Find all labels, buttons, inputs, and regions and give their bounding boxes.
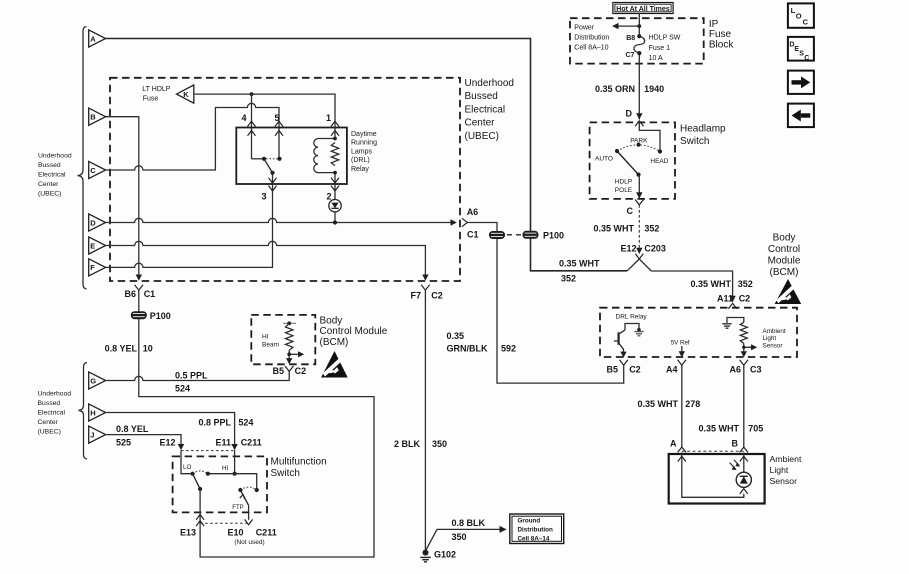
svg-text:352: 352 [738, 279, 753, 289]
relay lever pivot dot [270, 171, 274, 175]
5V Ref wire to A4 [681, 346, 683, 352]
connector E11 arrow [231, 444, 237, 450]
Body Control Module (BCM) label (left) [320, 315, 388, 348]
relay coil branch (pin 1) [318, 121, 335, 191]
back arrow icon box [788, 104, 814, 128]
lever pivot dot [636, 173, 640, 177]
connector terminal J [89, 426, 106, 443]
IP Fuse Block label [709, 19, 734, 50]
svg-text:(Not used): (Not used) [234, 539, 264, 546]
FTP lever arrow [240, 495, 245, 500]
svg-text:C: C [90, 166, 96, 175]
svg-text:350: 350 [452, 532, 467, 542]
light arrows onto photodiode [730, 460, 741, 470]
pin 1 crossing symbols [331, 121, 339, 126]
output arrow right [289, 353, 298, 355]
svg-text:A4: A4 [666, 365, 678, 375]
svg-text:C: C [803, 17, 809, 26]
svg-text:C211: C211 [256, 528, 277, 538]
Ambient Light Sensor small label [763, 328, 786, 350]
svg-text:0.35 WHT: 0.35 WHT [637, 399, 678, 409]
HI junction dot [233, 472, 237, 476]
HI Beam resistor [286, 323, 293, 350]
LO contact dot [191, 472, 195, 476]
pin 2 diode (in circle) [329, 191, 341, 223]
svg-text:B: B [90, 113, 96, 122]
svg-text:Ground: Ground [518, 518, 541, 525]
pin 3 arrow [269, 178, 277, 183]
svg-text:O: O [796, 12, 802, 21]
svg-text:Block: Block [709, 39, 734, 50]
svg-text:E13: E13 [180, 528, 196, 538]
junction dot at fuse feed [637, 24, 641, 28]
svg-text:Underhood: Underhood [38, 391, 72, 398]
wire A (0.35 WHT 352 branch to headlamp split) [106, 39, 628, 271]
ambient light sensor pull-up resistor [740, 322, 747, 343]
svg-text:A: A [670, 439, 677, 449]
wire lever to E13 and loop to wire B [199, 489, 201, 526]
svg-text:C3: C3 [750, 365, 762, 375]
svg-text:Hot At All Times: Hot At All Times [616, 6, 670, 13]
svg-text:A11: A11 [717, 294, 733, 304]
svg-text:5V Ref: 5V Ref [671, 339, 690, 346]
Power Distribution Cell 8A-10 label [574, 25, 609, 52]
photodiode [736, 472, 751, 494]
connector terminal F [89, 259, 106, 276]
BCM dashed box (right) [600, 308, 797, 357]
svg-text:LT HDLP: LT HDLP [142, 86, 170, 93]
LO second contact dot [206, 472, 210, 476]
svg-text:C203: C203 [644, 244, 666, 254]
wire B continues through P100 down and loop [139, 290, 374, 557]
svg-text:F7: F7 [410, 291, 421, 301]
junction dot diode to wire D [333, 220, 337, 224]
svg-text:525: 525 [116, 438, 131, 448]
svg-text:352: 352 [561, 274, 576, 284]
svg-text:B: B [732, 439, 739, 449]
E13 arrow [196, 515, 204, 520]
HI bus wire to FTP contact [208, 474, 257, 490]
dotted selector arc [617, 145, 660, 152]
connector E12/C203 arrow [636, 248, 642, 254]
Multifunction Switch dashed box [173, 456, 267, 512]
grommet P100 (left) [131, 311, 147, 319]
coil junction dots [333, 137, 337, 141]
connector fork A6/C3 [740, 360, 748, 365]
svg-text:0.8 BLK: 0.8 BLK [452, 518, 486, 528]
HI Beam feed stub [283, 322, 296, 324]
svg-text:2: 2 [326, 192, 331, 202]
svg-text:Relay: Relay [351, 166, 369, 173]
UBEC left bracket (lower) [79, 363, 88, 460]
svg-text:Electrical: Electrical [38, 172, 66, 179]
svg-text:AUTO: AUTO [595, 155, 613, 162]
svg-text:E: E [90, 241, 95, 250]
svg-text:(BCM): (BCM) [320, 337, 349, 348]
svg-text:(DRL): (DRL) [351, 157, 370, 164]
svg-text:Light: Light [763, 335, 777, 342]
svg-text:HEAD: HEAD [650, 158, 668, 165]
relay coil [314, 139, 318, 173]
wire FTP to E10 [248, 505, 250, 520]
svg-text:Fuse 1: Fuse 1 [649, 45, 671, 52]
UBEC label lower-left [38, 391, 72, 436]
wire branch to ground distribution [426, 529, 500, 550]
Headlamp Switch label [680, 124, 726, 148]
svg-text:Switch: Switch [680, 136, 709, 147]
svg-text:Distribution: Distribution [574, 35, 609, 42]
wire pole to C [638, 175, 641, 199]
dotted throw line between contacts [266, 158, 278, 160]
PARK contact dot [636, 143, 640, 147]
svg-text:Sensor: Sensor [763, 342, 783, 349]
svg-text:0.35 WHT: 0.35 WHT [559, 259, 600, 269]
LO lever [193, 474, 201, 489]
Ground Distribution Cell 8A-14 box [510, 514, 564, 544]
FTP lever [240, 490, 248, 505]
svg-text:C2: C2 [739, 294, 751, 304]
svg-text:592: 592 [501, 344, 516, 354]
svg-text:DRL Relay: DRL Relay [616, 313, 648, 320]
LT HDLP Fuse label [142, 86, 170, 102]
svg-text:350: 350 [432, 439, 447, 449]
Hot At All Times box [613, 3, 673, 14]
connector terminal B [89, 108, 106, 125]
relay switch contact dot (pin5 side) [277, 157, 281, 161]
Ambient Light Sensor box [669, 454, 765, 504]
connector fork B5/C2 (DRL relay) [620, 360, 628, 365]
dashes between grommets [507, 234, 522, 236]
connector fork B5/C2 (BCM left) [285, 366, 293, 371]
BCM dashed box (left, HI Beam) [251, 315, 315, 364]
arrow inside sensor (A) [678, 456, 686, 461]
LOC icon box [788, 3, 814, 27]
connector A11/C2 arrow [729, 296, 735, 302]
UBEC left bracket (upper) [78, 27, 87, 290]
svg-text:0.35 WHT: 0.35 WHT [698, 424, 739, 434]
connector fork F7/C2 [421, 285, 429, 290]
svg-text:J: J [90, 430, 94, 439]
ESD sensitive device symbol (right) [775, 279, 802, 304]
DRL relay driver transistor [614, 324, 644, 358]
svg-text:0.8 YEL: 0.8 YEL [116, 424, 149, 434]
arrow at B6 [136, 275, 142, 281]
connector C211 dashed tie (bottom) [200, 522, 249, 524]
DRL relay box [236, 128, 347, 185]
svg-text:HI: HI [262, 334, 269, 341]
svg-text:B6: B6 [124, 289, 136, 299]
wire D (to BCM via A6/C1, 0.35 GRN/BLK 592) [106, 218, 451, 222]
svg-text:2 BLK: 2 BLK [394, 439, 421, 449]
svg-text:Center: Center [38, 419, 59, 426]
dotted throw FTP [240, 487, 256, 490]
connector terminal G [89, 372, 106, 389]
sensor connector B fork [740, 447, 748, 452]
svg-text:C211: C211 [241, 438, 262, 448]
svg-text:C2: C2 [629, 365, 641, 375]
sensor connector A fork [678, 447, 686, 452]
svg-text:C1: C1 [467, 230, 479, 240]
arrow at F7 [422, 275, 428, 281]
wire F (to relay pin 3) [106, 191, 273, 268]
svg-text:Control: Control [768, 244, 800, 255]
grommet P100 (first) [489, 231, 505, 239]
svg-text:E12: E12 [620, 244, 636, 254]
connector terminal H [89, 404, 106, 421]
ESD sensitive device symbol (left) [321, 351, 348, 378]
Headlamp Switch dashed box [590, 122, 675, 198]
svg-text:Module: Module [768, 256, 801, 267]
svg-text:C1: C1 [144, 289, 156, 299]
svg-text:Body: Body [320, 315, 343, 326]
relay coil resistor [331, 143, 338, 166]
pin 3 fork [269, 186, 277, 191]
svg-text:A6: A6 [467, 207, 479, 217]
svg-text:Center: Center [38, 181, 59, 188]
svg-text:705: 705 [748, 424, 763, 434]
svg-text:H: H [90, 408, 95, 417]
dotted throw LO [193, 471, 208, 474]
arrowhead to ground distribution box [500, 526, 507, 533]
resistor bottom junction dot [288, 350, 290, 358]
svg-text:D: D [626, 109, 633, 119]
svg-text:F: F [90, 263, 95, 272]
sensor internal wire A [682, 452, 744, 497]
svg-text:Center: Center [465, 118, 496, 129]
svg-text:D: D [90, 218, 96, 227]
Body Control Module (BCM) label (right) [768, 233, 801, 279]
svg-text:(UBEC): (UBEC) [38, 429, 61, 436]
svg-text:E12: E12 [159, 438, 175, 448]
resistor output junction and arrow [744, 343, 752, 351]
svg-text:C: C [627, 206, 634, 216]
wire A4 to sensor A (0.35 WHT 278) [681, 365, 683, 447]
wire A6/C3 to sensor B (0.35 WHT 705) [743, 365, 745, 447]
svg-text:Fuse: Fuse [143, 95, 159, 102]
LO lever end dot [198, 487, 202, 491]
power distribution arrow [618, 25, 639, 27]
pin 3 wire inside relay [272, 173, 274, 191]
B5 arrow [286, 358, 292, 364]
svg-text:Multifunction: Multifunction [271, 456, 327, 467]
connector E12 arrow [178, 444, 184, 450]
HEAD contact dot [658, 149, 662, 153]
wire pin 4 drop [251, 94, 253, 159]
svg-text:4: 4 [241, 113, 246, 123]
svg-text:HDLP SW: HDLP SW [649, 35, 681, 42]
wire B (0.8 YEL 10 to multifunction switch E13) [106, 117, 139, 275]
UBEC label upper-left [38, 153, 72, 198]
svg-text:Distribution: Distribution [518, 527, 553, 534]
svg-text:Light: Light [770, 465, 789, 475]
svg-text:Cell 8A–10: Cell 8A–10 [574, 44, 608, 51]
wire split below C203 [627, 259, 651, 271]
wire C (to relay pin 5) [106, 103, 279, 170]
connector terminal D [89, 214, 106, 231]
Ambient Light Sensor label [770, 454, 802, 486]
headlamp switch lever [617, 151, 639, 175]
wire D continues to grommet then down to DRL relay [467, 223, 623, 384]
svg-text:0.5 PPL: 0.5 PPL [175, 370, 208, 380]
Multifunction Switch label [271, 456, 327, 479]
wire E12 into switch [181, 450, 191, 474]
svg-text:HI: HI [222, 465, 229, 472]
connector terminal A [89, 30, 106, 47]
svg-text:Headlamp: Headlamp [680, 124, 726, 135]
connector terminal K (left pointing) [177, 85, 194, 103]
svg-text:0.8 YEL: 0.8 YEL [105, 344, 138, 354]
A6/C3 arrow [741, 351, 747, 357]
svg-text:B5: B5 [272, 366, 284, 376]
connector terminal C [89, 161, 106, 178]
FTP right contact dot [255, 488, 259, 492]
svg-text:352: 352 [644, 224, 659, 234]
svg-text:G102: G102 [434, 550, 456, 560]
svg-text:Bussed: Bussed [465, 91, 498, 102]
label HDLP POLE [615, 178, 633, 194]
svg-text:HDLP: HDLP [615, 178, 632, 185]
pin 5 crossing symbols [275, 121, 283, 126]
wire 2 BLK down to G102 [424, 290, 426, 550]
forward arrow icon box [788, 71, 814, 94]
UBEC dashed box [110, 78, 460, 281]
connector fork C [635, 200, 643, 205]
svg-text:C2: C2 [295, 366, 307, 376]
svg-text:Daytime: Daytime [351, 131, 377, 138]
svg-text:524: 524 [175, 384, 190, 394]
svg-text:10 A: 10 A [649, 55, 663, 62]
arrow at A6 [451, 219, 457, 225]
wire G (0.5 PPL 524 to BCM B5) [106, 371, 290, 380]
svg-text:Power: Power [574, 25, 595, 32]
svg-text:10: 10 [143, 344, 153, 354]
connector E12/C203 fork [635, 254, 643, 259]
svg-text:Bussed: Bussed [38, 162, 61, 169]
svg-text:Body: Body [773, 233, 796, 244]
svg-text:Underhood: Underhood [38, 153, 72, 160]
svg-text:Underhood: Underhood [465, 78, 514, 89]
svg-text:0.35 WHT: 0.35 WHT [593, 224, 634, 234]
connector fork A6/C1 [462, 218, 467, 226]
pin 4 crossing symbols [248, 121, 256, 126]
fuse HDLP SW Fuse 1 10A [637, 34, 641, 38]
connector fork A4 [678, 360, 686, 365]
svg-text:Electrical: Electrical [465, 104, 506, 115]
fuse label HDLP SW Fuse 1 10 A [649, 35, 681, 62]
DESC icon box [788, 37, 814, 62]
svg-text:C7: C7 [625, 52, 634, 59]
IP fuse block dashed box [570, 18, 704, 63]
wire K to relay pins 4 and 1 [194, 94, 335, 120]
sensor internal wire B [743, 452, 745, 472]
svg-text:1: 1 [326, 113, 331, 123]
wire 0.35 WHT 352 to BCM A11 [651, 271, 732, 302]
connector D fork [635, 121, 643, 126]
relay label Daytime Running Lamps (DRL) Relay [351, 131, 377, 173]
UBEC label right of box [465, 78, 514, 142]
svg-text:0.35 WHT: 0.35 WHT [690, 279, 731, 289]
AUTO contact dot [615, 149, 619, 153]
svg-text:E10: E10 [227, 528, 243, 538]
connector D arrow [636, 113, 642, 119]
svg-text:Control Module: Control Module [320, 326, 388, 337]
ground symbol G102 [420, 557, 431, 561]
arrow inside sensor (B) [740, 456, 748, 461]
svg-text:Ambient: Ambient [770, 454, 802, 464]
ambient light sensor pull-up: ground [722, 318, 744, 329]
relay switch contact dot (pin4 side) [252, 158, 265, 160]
wire J (0.8 YEL 525 to E12) [106, 435, 181, 445]
svg-text:A6: A6 [729, 365, 741, 375]
svg-text:(UBEC): (UBEC) [465, 131, 499, 142]
svg-text:C: C [804, 55, 809, 62]
svg-text:Sensor: Sensor [770, 476, 798, 486]
arrow at C [636, 192, 642, 198]
junction dot K/pin4 [250, 92, 254, 96]
grommet P100 (second) [523, 231, 539, 239]
svg-text:524: 524 [238, 418, 253, 428]
pin 2 fork [331, 186, 339, 191]
E13 connector fork [196, 521, 204, 526]
svg-text:B8: B8 [626, 35, 635, 42]
svg-text:A: A [90, 34, 96, 43]
sensor connector dashed tie [682, 450, 744, 452]
ground node G102 [423, 550, 429, 556]
svg-text:POLE: POLE [615, 187, 633, 194]
connector C211 dashed tie (top) [181, 450, 235, 452]
svg-text:GRN/BLK: GRN/BLK [447, 344, 488, 354]
relay switch lever [264, 159, 273, 173]
svg-text:1940: 1940 [644, 84, 664, 94]
svg-text:Switch: Switch [271, 468, 300, 479]
svg-text:E11: E11 [215, 438, 231, 448]
connector fork B6/C1 [135, 285, 143, 290]
svg-text:Cell 8A–14: Cell 8A–14 [518, 536, 550, 543]
svg-text:0.35: 0.35 [447, 331, 465, 341]
E10 connector fork [245, 519, 253, 524]
svg-text:PARK: PARK [630, 138, 648, 145]
svg-text:3: 3 [261, 192, 266, 202]
wire H (0.8 PPL 524 to E11) [106, 413, 235, 445]
svg-text:Ambient: Ambient [763, 328, 786, 335]
HI Beam label [262, 334, 279, 349]
svg-text:Beam: Beam [262, 342, 279, 349]
main feed wire from hot box through fuse to headlamp switch D [638, 14, 640, 120]
svg-text:FTP: FTP [232, 505, 243, 511]
FTP left contact dot [238, 488, 242, 492]
connector A11/C2 fork [728, 303, 736, 308]
svg-text:(UBEC): (UBEC) [38, 191, 61, 198]
svg-text:K: K [183, 90, 189, 99]
svg-text:G: G [90, 376, 96, 385]
pin 2 arrow [331, 178, 339, 183]
svg-text:Bussed: Bussed [38, 400, 61, 407]
wire D to HEAD contact [639, 121, 660, 152]
svg-text:P100: P100 [150, 311, 171, 321]
svg-text:LO: LO [183, 464, 192, 471]
svg-text:Running: Running [351, 140, 377, 147]
wire E (2 BLK 350 ground wire) [106, 241, 426, 274]
svg-text:0.35 ORN: 0.35 ORN [595, 84, 635, 94]
dashed wire C to C203 [638, 205, 640, 248]
svg-text:(BCM): (BCM) [770, 267, 799, 278]
svg-text:P100: P100 [543, 231, 564, 241]
wire E11 into switch [234, 450, 236, 474]
svg-text:Lamps: Lamps [351, 148, 373, 155]
svg-text:B5: B5 [606, 365, 618, 375]
svg-text:C2: C2 [431, 291, 443, 301]
svg-text:0.8 PPL: 0.8 PPL [198, 418, 231, 428]
